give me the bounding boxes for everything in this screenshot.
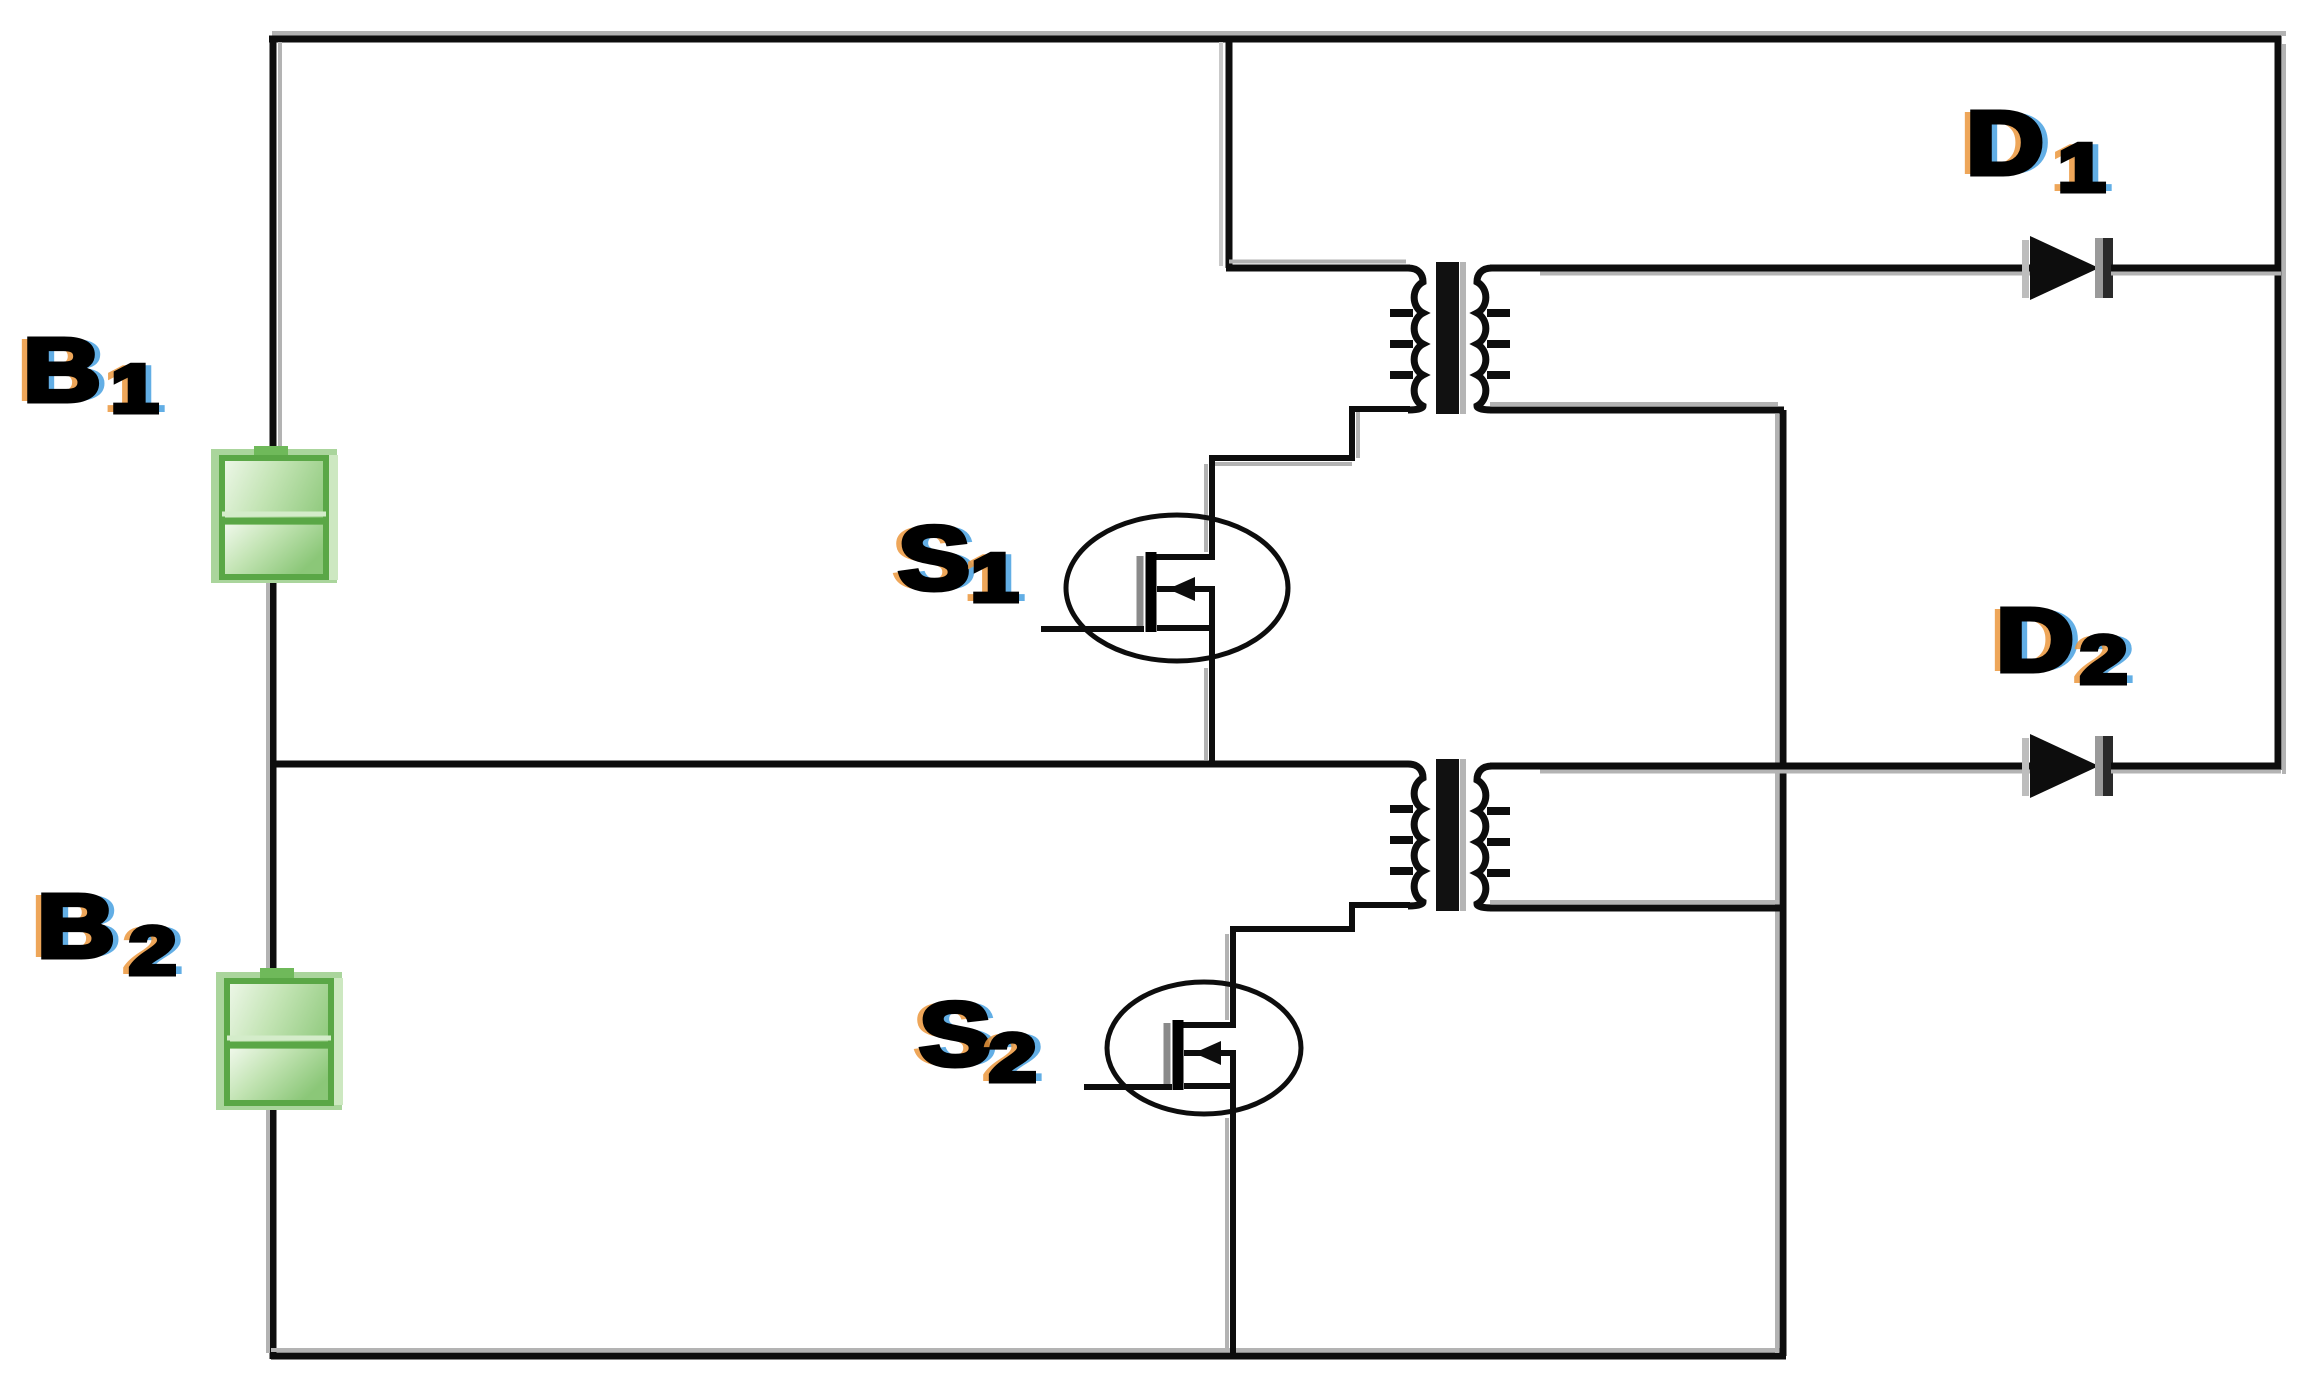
wire left rail <box>270 36 277 1359</box>
S1 drain arm <box>1154 554 1215 560</box>
T2 secondary winding loop cusps <box>1487 807 1510 815</box>
T2 primary winding loop cusps <box>1390 805 1413 813</box>
T1 secondary winding loop cusps <box>1487 309 1510 317</box>
wire T2 primary bottom step to S2 drain <box>1233 905 1410 1025</box>
wire top rail (B1+ to D1 cathode) <box>272 31 2286 36</box>
S2 source arm <box>1184 1083 1233 1089</box>
S2 drain arm <box>1180 1022 1236 1028</box>
S2 channel bar <box>1173 1020 1184 1090</box>
wire drop from top rail to T1 primary <box>1219 42 1223 266</box>
label B1 <box>23 326 101 416</box>
label S2 <box>919 990 991 1080</box>
transformer T1 primary winding <box>1408 268 1423 410</box>
wire middle rail (B1- / B2+ to T2 primary) <box>270 761 1408 768</box>
S1 source lead down to middle rail <box>1209 586 1215 764</box>
label B2 <box>37 882 115 972</box>
wire secondary return vertical <box>1775 414 1779 1353</box>
S1 gate electrode bar <box>1137 556 1144 630</box>
label D1 <box>1966 99 2044 189</box>
label S1 <box>898 514 970 604</box>
label D2 <box>1996 596 2074 686</box>
battery B1 <box>211 446 338 583</box>
transformer T1 core <box>1436 262 1459 414</box>
S2 body arm with arrow <box>1184 1050 1233 1056</box>
S1 source arm <box>1157 625 1212 631</box>
S1 gate lead <box>1041 626 1144 632</box>
transformer T2 primary winding <box>1408 764 1423 906</box>
MOSFET S1 body circle <box>1066 515 1288 661</box>
T1 primary winding loop cusps <box>1390 309 1413 317</box>
diode D2 <box>2022 738 2029 796</box>
wire T2 secondary bottom to return line <box>1490 900 1778 904</box>
transformer T1 secondary winding <box>1477 268 1492 410</box>
wire bottom rail <box>271 1348 1780 1352</box>
S2 source lead down to bottom rail <box>1230 1050 1236 1356</box>
battery B2 <box>216 968 343 1110</box>
wire T1 secondary bottom to return line <box>1490 402 1778 406</box>
wire T1 primary top <box>1229 260 1406 264</box>
transformer T2 secondary winding <box>1477 766 1492 908</box>
S2 gate lead <box>1084 1084 1172 1090</box>
wire T1 primary bottom step to S1 drain <box>1212 409 1410 557</box>
diode D1 <box>2022 240 2029 298</box>
transformer T2 core <box>1436 759 1459 911</box>
S1 body arm with arrow <box>1157 586 1212 592</box>
wire T2 secondary top to D2 anode <box>1490 763 2032 770</box>
MOSFET S2 body circle <box>1107 982 1301 1114</box>
wire T1 secondary top to D1 anode <box>1490 265 2032 272</box>
S2 gate electrode bar <box>1164 1023 1171 1089</box>
S1 channel bar <box>1146 552 1157 632</box>
wire right rail <box>2275 36 2282 770</box>
wire D1 cathode to right rail <box>2111 265 2281 272</box>
wire D2 cathode to right rail <box>2111 763 2281 770</box>
